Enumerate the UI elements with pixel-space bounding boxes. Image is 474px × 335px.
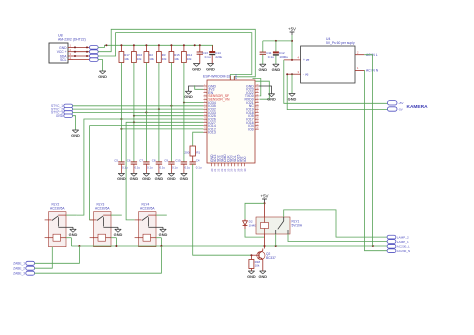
svg-text:220u: 220u <box>215 55 222 59</box>
resistor R1 200 <box>184 146 200 156</box>
svg-text:LAMP_1: LAMP_1 <box>397 240 409 244</box>
svg-text:ESP-WROOM-32: ESP-WROOM-32 <box>203 75 230 79</box>
svg-text:R1: R1 <box>196 150 200 154</box>
wire STYC_2 to IO32 <box>72 108 203 110</box>
connector J4 ZABE labels <box>13 262 25 276</box>
resistor R16 10k <box>132 45 143 62</box>
svg-text:C9: C9 <box>164 158 168 162</box>
wire RLY1 coil to Q2 collector <box>264 234 266 249</box>
relay RLY3 AC230/5A <box>90 203 122 247</box>
ground under J3 <box>71 130 80 138</box>
wire R18 to ground <box>250 269 252 272</box>
sensor U8 AM-2302 (DHT22) label <box>58 34 86 42</box>
svg-text:-5V: -5V <box>398 107 403 111</box>
diode D2 1N4007 <box>243 219 260 229</box>
wire IO14 to relay RLY3 <box>90 126 204 220</box>
svg-text:ZABE_1: ZABE_1 <box>13 262 25 266</box>
transistor Q2 BC337 <box>257 251 276 261</box>
module U1 top pins <box>230 74 238 80</box>
svg-text:10k: 10k <box>187 57 192 61</box>
wire IO26 to relay RLY2 <box>77 118 204 215</box>
ground under C6 <box>130 173 139 181</box>
svg-text:GND: GND <box>114 232 123 237</box>
wire R14 to IO34 <box>183 102 204 104</box>
connector J6 output labels <box>397 235 410 253</box>
svg-text:AC230_L: AC230_L <box>397 245 410 249</box>
svg-text:10k: 10k <box>124 57 129 61</box>
wire IO27 to relay RLY4 <box>126 121 203 220</box>
module U1 bottom pins <box>210 154 247 172</box>
wire decoupling rail <box>263 40 292 42</box>
svg-text:IO0: IO0 <box>243 156 247 162</box>
svg-text:GND: GND <box>184 94 193 99</box>
svg-text:AC230/5A: AC230/5A <box>50 206 65 210</box>
ground under C12 <box>272 64 281 72</box>
relay RLY1 switch <box>276 217 288 234</box>
wire Q2 base <box>250 254 259 256</box>
capacitor C12 1000u <box>273 41 288 59</box>
svg-text:C4: C4 <box>196 158 200 162</box>
wire STYC_3 to IO33 <box>72 111 203 113</box>
ground at RLY4 <box>159 229 168 237</box>
capacitor C14 220u <box>209 45 222 59</box>
svg-text:AC230/5A: AC230/5A <box>140 206 155 210</box>
resistor R2 10k <box>144 45 155 62</box>
svg-text:1000u: 1000u <box>279 55 288 59</box>
wire DHT GND to J2 pin1 <box>73 46 90 48</box>
svg-text:0.1u: 0.1u <box>160 166 166 170</box>
svg-text:GND: GND <box>71 133 80 138</box>
resistor R14 10k <box>182 45 193 62</box>
wire C4 to Q2 base <box>193 164 252 255</box>
svg-text:GND: GND <box>167 176 176 181</box>
capacitor C4 0.1u <box>190 158 202 169</box>
svg-text:GND: GND <box>192 66 201 71</box>
connector J5 KAMERA labels <box>398 101 428 111</box>
wire Q2 emitter to ground <box>262 260 264 271</box>
wire R1 to C4 <box>192 156 194 162</box>
wire hook TXD0 <box>253 79 261 96</box>
svg-text:GND: GND <box>56 114 64 118</box>
ground at RLY3 <box>114 229 123 237</box>
svg-text:IO0: IO0 <box>248 127 254 131</box>
wire C5 to ground <box>120 164 122 173</box>
module U1 ESP-WROOM-32 label <box>203 75 230 79</box>
wire DHT SCL to J2 pin4 <box>73 59 90 61</box>
sensor U8 pins <box>68 44 73 60</box>
ground at ESP left <box>184 91 193 99</box>
capacitor C8 0.1u <box>152 158 166 169</box>
svg-text:+ ve: + ve <box>303 58 309 62</box>
wire ZABE_2 to RLY2 coil <box>34 247 52 269</box>
wire C14 to ground <box>211 55 213 63</box>
module U1 right pins <box>245 84 260 131</box>
ground under U4 <box>288 94 297 102</box>
svg-text:10k: 10k <box>255 264 260 268</box>
capacitor C13 0.1u <box>197 45 211 59</box>
svg-text:C6: C6 <box>127 158 131 162</box>
ground at ESP right <box>267 94 276 102</box>
wire +5V pull-up rail <box>105 44 212 51</box>
svg-text:0.1u: 0.1u <box>185 166 191 170</box>
wire +5V to U4 +ve <box>291 35 293 61</box>
svg-text:0.1u: 0.1u <box>172 166 178 170</box>
svg-text:GND: GND <box>142 176 151 181</box>
power +5V at U4 <box>288 27 296 35</box>
ground at Q2 emitter <box>258 271 267 279</box>
wire ESP 3V3 to rail <box>195 85 204 89</box>
svg-text:GND: GND <box>267 97 276 102</box>
wire coil rail to AC230_L pin <box>71 245 387 247</box>
connector J2 (DHT22 header) <box>89 46 98 62</box>
wire J3 GND to ground <box>72 116 75 130</box>
wire C11 to ground <box>262 54 264 64</box>
svg-text:30: 30 <box>243 168 247 172</box>
module U4 power supply body <box>301 46 355 83</box>
ground under C5 <box>117 173 126 181</box>
wire RLY1 common to LAMP_2 <box>284 210 388 237</box>
svg-text:GND: GND <box>130 176 139 181</box>
svg-text:GND: GND <box>69 232 78 237</box>
module U4 AC L pin <box>355 51 378 57</box>
wire U4 -ve to ground <box>291 74 293 93</box>
wire C7 to ground <box>145 164 147 173</box>
resistor R17 10k <box>119 45 130 62</box>
svg-text:ZABE_2: ZABE_2 <box>13 267 25 271</box>
svg-text:3V3: 3V3 <box>234 74 238 79</box>
wire ESP GND-right to ground <box>259 86 272 94</box>
ground at R18 <box>247 271 256 279</box>
ground under C14 <box>206 64 215 72</box>
relay RLY1 coil <box>261 217 269 234</box>
svg-text:0.1u: 0.1u <box>147 166 153 170</box>
svg-text:GND: GND <box>272 67 281 72</box>
wire IO13 to R1 <box>193 132 204 146</box>
svg-text:AM-2302 (DHT22): AM-2302 (DHT22) <box>58 38 86 42</box>
module U4 -ve pin <box>287 70 308 76</box>
connector J3 STYC labels <box>51 104 64 118</box>
wire STYC_1 to IO35 <box>72 105 203 107</box>
wire J2 pin1 to +5V rail <box>98 45 106 47</box>
connector J4 ZABE pins <box>26 261 35 275</box>
wire DHT VCC to J2 pin2 <box>73 51 90 53</box>
svg-text:0.1u: 0.1u <box>205 55 211 59</box>
wires pull-up columns to filter caps <box>121 63 183 162</box>
ground under J2 <box>98 71 107 79</box>
capacitor C10 0.1u <box>175 158 190 169</box>
svg-text:SCL: SCL <box>60 58 67 62</box>
relay RLY2 AC230/5A <box>45 203 77 247</box>
module U4 power supply label <box>326 37 355 45</box>
resistor R3 10k <box>157 45 168 62</box>
svg-text:GND: GND <box>206 66 215 71</box>
svg-text:0.1u: 0.1u <box>122 166 128 170</box>
wire hook RXD0 <box>256 81 270 99</box>
wire +5V to RLY1 coil <box>264 202 266 217</box>
svg-text:GND: GND <box>258 274 267 279</box>
wire RLY1 contact2 to LAMP_1 <box>288 234 388 242</box>
wire ZABE_3 to RLY4 area <box>34 246 161 273</box>
svg-text:5V/10A: 5V/10A <box>292 224 303 228</box>
svg-text:GND: GND <box>180 176 189 181</box>
svg-text:GND: GND <box>98 74 107 79</box>
module U1 ESP-WROOM-32 body <box>207 80 255 163</box>
resistor R18 10k <box>249 255 261 268</box>
svg-text:ZABE_3: ZABE_3 <box>13 272 25 276</box>
svg-text:10k: 10k <box>162 57 167 61</box>
svg-text:GND: GND <box>288 96 297 101</box>
svg-text:GND: GND <box>155 176 164 181</box>
wire IO12 stub <box>120 128 203 130</box>
svg-text:BC337: BC337 <box>266 256 276 260</box>
ground at RLY2 <box>69 229 78 237</box>
wire C8 to ground <box>158 164 160 173</box>
wire D2 to coil bottom <box>245 229 265 237</box>
svg-text:200: 200 <box>184 150 189 154</box>
wire RLY1 contact to rail <box>275 234 277 246</box>
connector J6 output pins <box>387 235 396 252</box>
wire +5V to KAMERA <box>284 60 388 103</box>
svg-text:+5V: +5V <box>261 194 269 199</box>
wire AC IN L to AC230_L <box>364 55 372 247</box>
ground under C11 <box>258 64 267 72</box>
connector J5 KAMERA pins <box>387 101 397 112</box>
wire C13 to ground <box>199 54 201 63</box>
svg-text:AC230/5A: AC230/5A <box>95 206 110 210</box>
wire C6 to ground <box>133 164 135 173</box>
svg-text:10k: 10k <box>174 57 179 61</box>
svg-text:IO13: IO13 <box>208 131 216 135</box>
svg-text:GND: GND <box>159 232 168 237</box>
svg-text:5V_Ps 60 per suply: 5V_Ps 60 per suply <box>326 41 355 45</box>
sensor U8 body <box>49 43 68 63</box>
wire ZABE_1 to coil rail <box>34 246 79 263</box>
ground under C9 <box>167 173 176 181</box>
wire loop net3 (J2 pin3 - ESP top pin 1) <box>98 33 252 80</box>
power +5V at RLY1 <box>261 194 269 202</box>
svg-text:+5V: +5V <box>288 27 296 32</box>
svg-text:AC230_N: AC230_N <box>397 249 410 253</box>
svg-text:LAMP_2: LAMP_2 <box>397 235 409 239</box>
wire C12 to ground <box>275 56 277 65</box>
capacitor C5 0.1u <box>114 158 128 169</box>
connector J3 STYC pins <box>64 104 73 117</box>
wire J2 pin4 to ground <box>98 60 103 71</box>
ground under C8 <box>155 173 164 181</box>
module U4 +ve pin <box>284 56 310 62</box>
capacitor C11 0.1u <box>260 41 275 59</box>
svg-text:C8: C8 <box>152 158 156 162</box>
wire DHT SDA to J2 pin3 <box>73 55 90 57</box>
capacitor C7 0.1u <box>139 158 153 169</box>
wire -5V to KAMERA <box>286 73 387 109</box>
svg-text:0.1u: 0.1u <box>135 166 141 170</box>
capacitor C6 0.1u <box>127 158 141 169</box>
svg-text:C7: C7 <box>139 158 143 162</box>
svg-text:10k: 10k <box>149 57 154 61</box>
wire Q2 collector <box>262 249 264 251</box>
ground under C13 <box>192 64 201 72</box>
wire C10 to ground <box>183 164 185 173</box>
wire C9 to ground <box>170 164 172 173</box>
module U1 left pins <box>204 84 231 134</box>
svg-text:GND: GND <box>117 176 126 181</box>
svg-text:C10: C10 <box>175 158 181 162</box>
wire +5V branch to D2 <box>245 203 265 219</box>
svg-text:- ve: - ve <box>303 72 309 76</box>
svg-text:C5: C5 <box>114 158 118 162</box>
svg-text:KAMERA: KAMERA <box>407 104 429 110</box>
wire AC IN N to AC230_N <box>364 70 387 250</box>
wire R16 to IO25 <box>133 115 204 117</box>
wire ESP GND-left to ground <box>189 86 204 91</box>
svg-text:GND: GND <box>247 274 256 279</box>
relay RLY4 AC230/5A <box>135 203 167 247</box>
svg-text:10k: 10k <box>137 57 142 61</box>
module U4 AC N pin <box>355 66 379 72</box>
ground under C7 <box>142 173 151 181</box>
sensor U8 pin names <box>57 46 68 62</box>
wire loop net2 (J2 pin2 - ESP top pin 2) <box>98 29 255 80</box>
relay RLY1 5V/10A body <box>256 217 303 234</box>
capacitor C9 0.1u <box>164 158 178 169</box>
svg-text:GND: GND <box>258 67 267 72</box>
ground under C10 <box>180 173 189 181</box>
resistor R15 10k <box>169 45 180 62</box>
svg-text:+5V: +5V <box>398 101 403 105</box>
svg-text:0.1u: 0.1u <box>196 166 202 170</box>
